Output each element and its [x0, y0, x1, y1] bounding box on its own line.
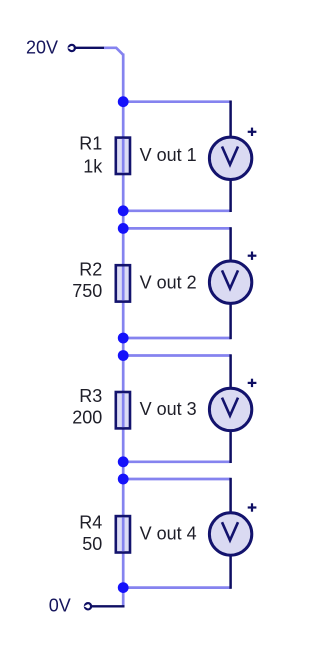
wire node R1-top junction to voltmeter V1 feed	[123, 100, 230, 103]
voltmeter V2 (V out 2)	[209, 261, 251, 303]
label voltmeter V2 plus polarity	[248, 252, 257, 260]
voltmeter V1 (V out 1)	[209, 137, 251, 179]
wire voltmeter V2 negative lead (dark stub)	[229, 303, 232, 339]
svg-text:0V: 0V	[49, 595, 71, 615]
wire voltmeter V2 return to node R2-bottom junction	[123, 337, 230, 340]
resistor R3	[116, 392, 130, 428]
junction node R3 bottom	[118, 456, 129, 467]
wire voltmeter V3 negative lead (dark stub)	[229, 431, 232, 463]
svg-text:20V: 20V	[26, 38, 58, 58]
svg-text:R1: R1	[79, 133, 102, 153]
label voltmeter V1 plus polarity	[248, 128, 257, 136]
wire voltmeter V3 return to node R3-bottom junction	[123, 460, 230, 463]
junction node R2 top	[118, 223, 129, 234]
wire voltmeter V2 positive lead (dark stub)	[229, 227, 232, 261]
terminal 0V	[84, 603, 91, 609]
svg-text:R2: R2	[79, 259, 102, 279]
wire 0V terminal to main bus (dark segment)	[92, 605, 125, 607]
junction node R4 bottom	[118, 582, 129, 593]
wire node R4-top junction to voltmeter V4 feed	[123, 478, 230, 481]
svg-text:750: 750	[72, 281, 102, 301]
label voltmeter V3 plus polarity	[248, 379, 257, 387]
svg-text:R4: R4	[79, 512, 102, 532]
svg-text:R3: R3	[79, 386, 102, 406]
svg-text:V out 3: V out 3	[140, 399, 197, 419]
wire main vertical bus	[122, 54, 125, 607]
wire voltmeter V4 return to node R4-bottom junction	[123, 586, 230, 589]
wire voltmeter V3 positive lead (dark stub)	[229, 354, 232, 388]
resistor R2	[116, 265, 130, 301]
junction node R1 bottom	[118, 205, 129, 216]
wire voltmeter V1 return to node R1-bottom junction	[123, 209, 230, 212]
junction node R4 top	[118, 474, 129, 485]
junction node R2 bottom	[118, 333, 129, 344]
wire voltmeter V4 positive lead (dark stub)	[229, 478, 232, 513]
terminal 20V	[68, 45, 75, 51]
voltmeter V3 (V out 3)	[209, 388, 251, 430]
wire voltmeter V4 negative lead (dark stub)	[229, 555, 232, 589]
svg-text:1k: 1k	[83, 156, 103, 176]
wire node R3-top junction to voltmeter V3 feed	[123, 354, 230, 357]
svg-text:50: 50	[82, 534, 102, 554]
svg-text:V out 1: V out 1	[140, 145, 197, 165]
svg-text:200: 200	[72, 408, 102, 428]
wire voltmeter V1 positive lead (dark stub)	[229, 101, 232, 138]
resistor R4	[116, 516, 130, 552]
junction node R3 top	[118, 350, 129, 361]
wire 20V terminal to corner (dark segment)	[75, 47, 104, 49]
junction node R1 top	[118, 96, 129, 107]
wire corner into main bus (light segment)	[104, 48, 123, 55]
resistor R1	[116, 138, 130, 174]
svg-text:V out 2: V out 2	[140, 272, 197, 292]
svg-text:V out 4: V out 4	[140, 523, 197, 543]
label voltmeter V4 plus polarity	[248, 503, 257, 511]
wire node R2-top junction to voltmeter V2 feed	[123, 227, 230, 230]
voltmeter V4 (V out 4)	[209, 513, 251, 555]
wire voltmeter V1 negative lead (dark stub)	[229, 180, 232, 213]
